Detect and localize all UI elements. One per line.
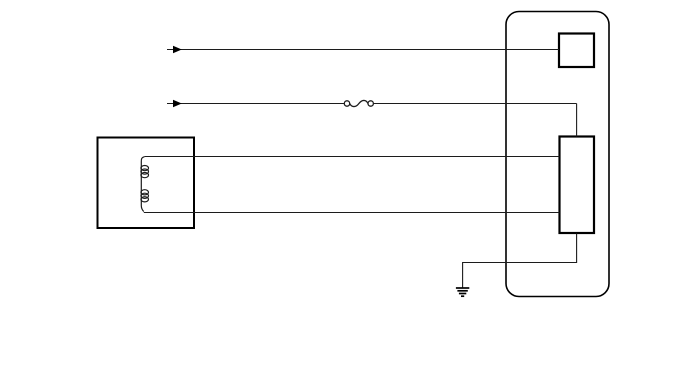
wire W3 (coil top to component block)	[144, 156, 559, 158]
wire W2 vertical drop to component block	[576, 104, 578, 137]
connector outline	[506, 12, 609, 297]
left component box	[98, 138, 195, 229]
arrowhead W1	[173, 46, 182, 54]
terminal square	[559, 34, 594, 68]
wire W1	[167, 49, 559, 51]
wire W2 left segment	[167, 103, 344, 105]
wire W4 (coil bottom to component block)	[144, 212, 560, 214]
inductor L1	[141, 157, 149, 212]
component block	[560, 137, 595, 234]
fuse F1	[344, 100, 373, 106]
wire W5 (component block to ground)	[463, 234, 577, 288]
arrowhead W2	[173, 100, 182, 108]
ground	[456, 288, 469, 296]
wire W2 right segment	[373, 103, 576, 105]
